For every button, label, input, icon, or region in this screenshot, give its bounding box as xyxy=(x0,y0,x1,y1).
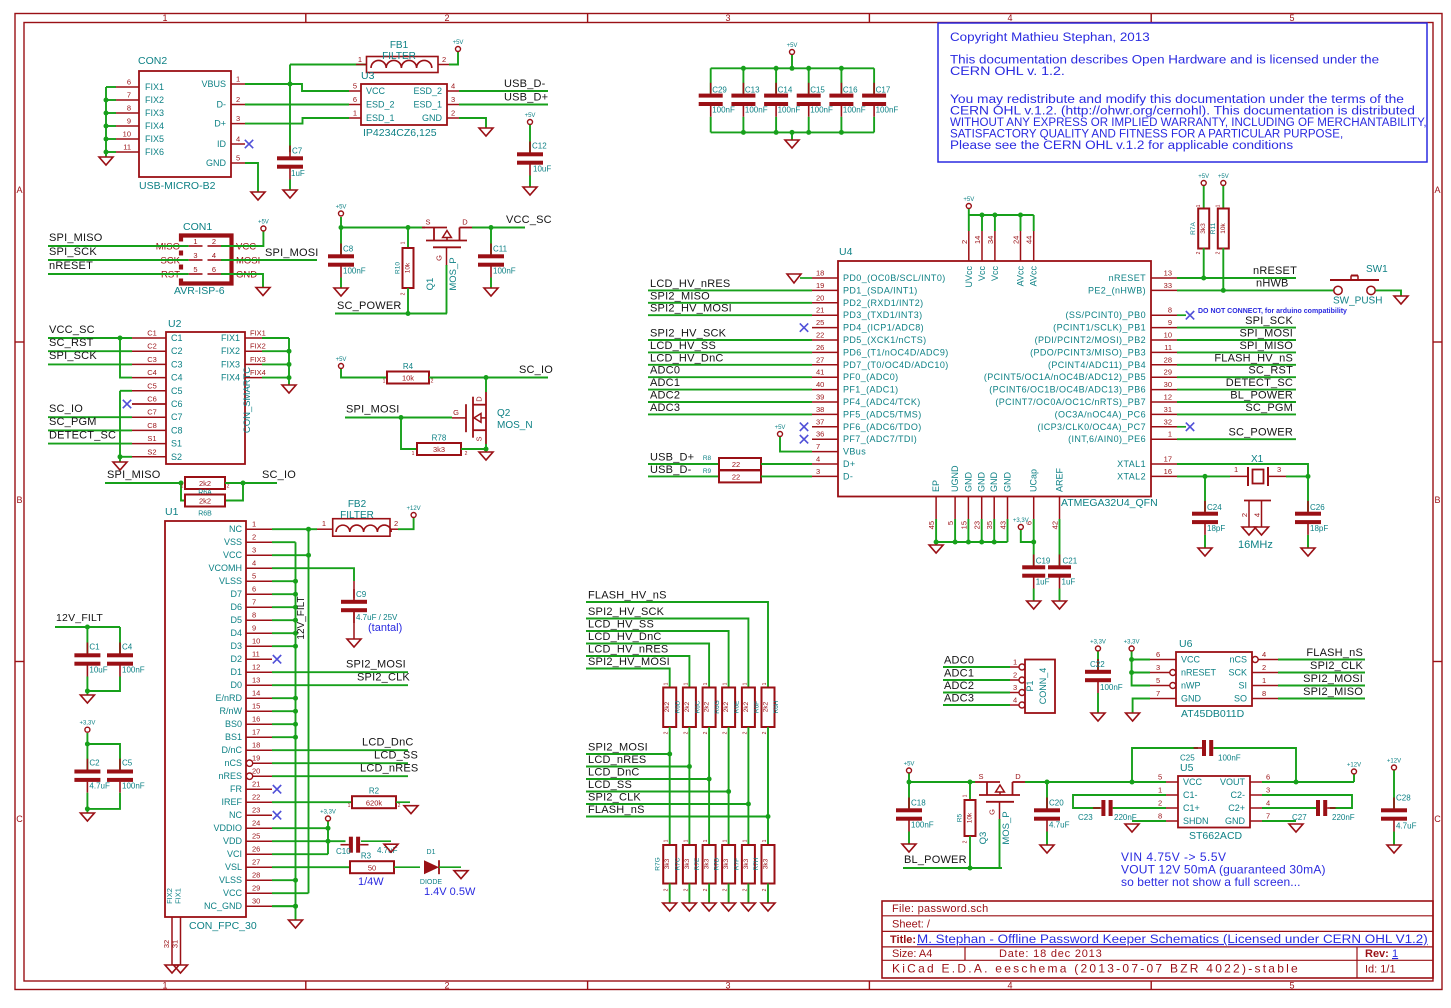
svg-text:3k3: 3k3 xyxy=(763,858,770,869)
svg-text:GND: GND xyxy=(1181,694,1202,704)
svg-text:IREF: IREF xyxy=(221,797,242,807)
svg-text:5: 5 xyxy=(1158,773,1162,782)
no-connect xyxy=(245,140,253,148)
svg-text:C25: C25 xyxy=(1180,754,1195,763)
wire U1 pin10 xyxy=(272,645,296,647)
wire divider column xyxy=(728,727,730,845)
svg-text:C2+: C2+ xyxy=(1228,803,1245,813)
svg-text:3: 3 xyxy=(193,251,197,260)
wire +12V to C28 xyxy=(1393,771,1395,809)
capacitor C10 xyxy=(336,837,398,856)
svg-text:LCD_HV_DnC: LCD_HV_DnC xyxy=(650,352,724,364)
power +3,3V at UCap xyxy=(1013,518,1029,530)
svg-text:C14: C14 xyxy=(778,85,793,94)
wire +5V to R11 xyxy=(1222,186,1224,209)
junction xyxy=(953,540,958,545)
svg-text:C4: C4 xyxy=(147,368,157,377)
svg-text:C26: C26 xyxy=(1310,503,1325,512)
svg-text:nCS: nCS xyxy=(1229,655,1247,665)
svg-text:5: 5 xyxy=(353,82,357,91)
power +3,3V at C2 xyxy=(79,721,95,733)
net label ADC3 at U4 xyxy=(650,402,680,414)
wire C2+ to C27 xyxy=(1262,807,1316,809)
svg-text:4: 4 xyxy=(816,455,820,464)
svg-text:6: 6 xyxy=(127,78,131,87)
wire SPI_SCK to CON1 xyxy=(48,259,189,261)
svg-text:10k: 10k xyxy=(1220,223,1227,234)
svg-text:VSS: VSS xyxy=(224,537,242,547)
wire U1 VDD to C10 xyxy=(272,840,346,842)
resistor R6G 2k2 xyxy=(703,688,722,728)
ground U3 xyxy=(479,128,493,136)
wire nHWB net xyxy=(1177,289,1334,291)
ground C28 xyxy=(1387,845,1401,853)
svg-text:FIX6: FIX6 xyxy=(145,147,164,157)
svg-text:BS1: BS1 xyxy=(225,732,242,742)
svg-text:37: 37 xyxy=(816,417,824,426)
junction xyxy=(741,130,746,135)
junction xyxy=(746,802,751,807)
svg-text:FLASH_nS: FLASH_nS xyxy=(588,804,645,816)
ground C20 xyxy=(1040,845,1054,853)
IC U4 ATMEGA32U4_QFN xyxy=(812,231,1177,529)
svg-text:UGND: UGND xyxy=(950,465,960,492)
ground C21 xyxy=(1053,601,1067,609)
svg-text:FB1: FB1 xyxy=(390,40,409,51)
resistor R10 xyxy=(395,248,414,288)
junction xyxy=(104,137,109,142)
svg-text:VCC: VCC xyxy=(236,242,256,253)
svg-text:5: 5 xyxy=(946,521,955,525)
ground D1 xyxy=(454,871,468,879)
junction xyxy=(839,66,844,71)
svg-text:10k: 10k xyxy=(402,374,414,383)
svg-text:D: D xyxy=(475,396,484,402)
svg-text:620k: 620k xyxy=(366,798,383,807)
wire LCD_DnC from U1 xyxy=(272,749,408,751)
wire SPI_MOSI from U4 xyxy=(1177,339,1296,341)
wire U1 pin29 xyxy=(272,892,309,894)
net label LCD_nRES at U1 xyxy=(360,763,418,775)
svg-text:2: 2 xyxy=(960,240,969,244)
net label LCD_DnC at divider xyxy=(588,767,640,779)
capacitor C16 xyxy=(829,83,865,117)
net label SPI_MOSI at Q2 xyxy=(346,404,400,416)
svg-text:R6E: R6E xyxy=(734,700,741,713)
svg-text:2k2: 2k2 xyxy=(664,701,671,712)
net label SPI2_MISO at U6 xyxy=(1303,686,1363,698)
svg-text:C7: C7 xyxy=(147,408,157,417)
wire xyxy=(106,112,116,114)
svg-text:12V_FILT: 12V_FILT xyxy=(56,612,103,624)
svg-text:ESD_1: ESD_1 xyxy=(413,100,442,110)
svg-text:ADC0: ADC0 xyxy=(650,365,680,377)
capacitor C22 xyxy=(1085,659,1123,693)
wire FB1 to +5V xyxy=(449,52,458,65)
net label LCD_SS at divider xyxy=(588,779,632,791)
svg-text:27: 27 xyxy=(252,858,260,867)
svg-text:S2: S2 xyxy=(171,452,182,462)
svg-text:3: 3 xyxy=(451,95,455,104)
IC U5 ST662ACD xyxy=(1158,762,1270,842)
svg-text:GND: GND xyxy=(236,270,257,281)
wire U1 VCI xyxy=(272,853,328,855)
net label SPI_SCK xyxy=(49,350,97,362)
wire R10 to SC_POWER xyxy=(407,288,409,314)
svg-text:SC_PGM: SC_PGM xyxy=(49,416,97,428)
wire LCD_nRES from U1 xyxy=(272,775,408,777)
svg-text:2: 2 xyxy=(442,55,446,64)
svg-text:24: 24 xyxy=(1012,236,1021,244)
svg-text:KiCad E.D.A. eeschema (2013-0: KiCad E.D.A. eeschema (2013-07-07 BZR 40… xyxy=(892,962,1300,976)
svg-text:G: G xyxy=(988,809,997,815)
svg-text:MOSI: MOSI xyxy=(236,256,260,267)
svg-text:2k2: 2k2 xyxy=(743,701,750,712)
svg-text:S2: S2 xyxy=(147,447,156,456)
power +5V at CON1 xyxy=(258,220,269,232)
svg-text:C4: C4 xyxy=(171,373,183,383)
svg-text:SC_RST: SC_RST xyxy=(1248,365,1293,377)
net label SPI_MISO at U4 right xyxy=(1239,340,1293,352)
junction VOUT xyxy=(1294,780,1299,785)
svg-text:6: 6 xyxy=(1266,773,1270,782)
svg-text:(PDO/PCINT3/MISO)_PB3: (PDO/PCINT3/MISO)_PB3 xyxy=(1030,347,1146,357)
svg-text:R6G: R6G xyxy=(714,700,721,713)
ground X1 pin2 xyxy=(1242,527,1256,535)
junction xyxy=(339,225,344,230)
wire to C1 xyxy=(86,627,88,653)
wire USB_D+ net xyxy=(459,104,548,106)
svg-text:C12: C12 xyxy=(532,142,547,151)
wire XTAL2 to X1 xyxy=(1177,475,1230,477)
power +5V at R11 xyxy=(1218,174,1229,186)
crystal X1 xyxy=(1230,454,1286,551)
svg-text:R7H: R7H xyxy=(753,857,760,870)
ground R7F xyxy=(741,903,755,911)
wire nRESET net xyxy=(1177,277,1296,279)
wire SPI2_CLK from U6 xyxy=(1278,672,1365,674)
svg-text:U5: U5 xyxy=(1180,762,1194,774)
ground SW1 xyxy=(1394,296,1408,304)
wire R7E to ground xyxy=(708,884,710,904)
wire UCap to C19 xyxy=(1033,519,1035,565)
resistor R2 xyxy=(352,787,396,809)
svg-text:1: 1 xyxy=(664,682,670,685)
wire SPI2_MOSI to divider xyxy=(586,753,670,755)
no-connect xyxy=(1186,311,1194,319)
svg-text:4: 4 xyxy=(451,82,455,91)
svg-text:2: 2 xyxy=(212,237,216,246)
svg-text:9: 9 xyxy=(252,624,256,633)
svg-text:(PCINT1/SCLK)_PB1: (PCINT1/SCLK)_PB1 xyxy=(1053,323,1146,333)
svg-text:3k3: 3k3 xyxy=(743,858,750,869)
svg-text:R6H: R6H xyxy=(773,700,780,713)
connector CON2 USB-MICRO-B2 xyxy=(116,55,245,192)
svg-text:9: 9 xyxy=(1168,318,1172,327)
ground cap bank xyxy=(785,140,799,148)
svg-text:R11: R11 xyxy=(1210,222,1217,234)
capacitor C2 xyxy=(74,759,110,793)
svg-text:2: 2 xyxy=(444,13,449,23)
svg-text:ESD_2: ESD_2 xyxy=(413,86,442,96)
svg-text:File: password.sch: File: password.sch xyxy=(892,903,989,915)
svg-text:D7: D7 xyxy=(230,589,242,599)
svg-text:33: 33 xyxy=(1164,281,1172,290)
svg-text:D5: D5 xyxy=(230,615,242,625)
net label SPI2_MOSI at U1 xyxy=(346,659,406,671)
IC U3 IP4234CZ6,125 xyxy=(349,70,459,139)
wire divider column xyxy=(708,727,710,845)
svg-text:19: 19 xyxy=(252,754,260,763)
svg-text:UVcc: UVcc xyxy=(964,266,974,288)
wire U1 pin1 to FB2 xyxy=(272,528,317,530)
svg-text:D-: D- xyxy=(843,471,853,481)
ground C18 xyxy=(902,844,916,852)
svg-text:34: 34 xyxy=(986,236,995,244)
svg-text:20: 20 xyxy=(816,293,824,302)
wire FLASH_nS from U6 xyxy=(1278,659,1365,661)
svg-text:16: 16 xyxy=(252,715,260,724)
svg-text:XTAL1: XTAL1 xyxy=(1117,459,1146,469)
wire +5V to rail xyxy=(791,55,793,68)
wire U5 GND xyxy=(1262,820,1296,822)
svg-text:BL_POWER: BL_POWER xyxy=(1230,390,1293,402)
svg-text:MOS_P: MOS_P xyxy=(448,257,459,290)
svg-text:R4: R4 xyxy=(403,362,414,371)
svg-text:SPI2_HV_MOSI: SPI2_HV_MOSI xyxy=(588,656,670,668)
wire U2 FIX bus xyxy=(288,338,290,385)
svg-text:NC: NC xyxy=(229,524,242,534)
svg-text:R6F: R6F xyxy=(753,701,760,713)
svg-text:C2: C2 xyxy=(147,342,157,351)
ground R7C xyxy=(682,903,696,911)
wire xyxy=(106,138,116,140)
svg-text:FIX4: FIX4 xyxy=(250,368,266,377)
wire Q3 to U5 VCC xyxy=(1025,781,1166,783)
svg-text:G: G xyxy=(453,408,459,417)
power +3,3V at U1 xyxy=(320,810,336,822)
wire C23 to C1+ xyxy=(1113,807,1166,809)
wire U2 C5 xyxy=(120,390,132,392)
wire SPI2_MOSI from U6 xyxy=(1278,685,1365,687)
wire GND pin down xyxy=(967,519,969,542)
junction R6B right xyxy=(241,481,246,486)
wire ADC1 to P1 xyxy=(943,679,1010,681)
svg-text:SPI2_MOSI: SPI2_MOSI xyxy=(588,742,648,754)
svg-text:Vcc: Vcc xyxy=(977,266,987,282)
note tantal xyxy=(368,622,402,634)
transistor Q2 MOS_N xyxy=(452,392,533,444)
net label 12V_FILT vertical xyxy=(296,596,307,639)
svg-text:50: 50 xyxy=(368,863,376,872)
copyright text block xyxy=(938,23,1427,162)
svg-text:Rev:: Rev: xyxy=(1365,948,1389,960)
wire U1 pin3 xyxy=(272,554,309,556)
wire C26 to ground xyxy=(1307,535,1309,548)
svg-text:C6: C6 xyxy=(147,395,157,404)
svg-text:8: 8 xyxy=(1158,812,1162,821)
wire USB_D- to R9 xyxy=(648,475,719,477)
svg-text:+3,3V: +3,3V xyxy=(79,721,95,727)
resistor R4 xyxy=(387,362,429,384)
junction VDDIO xyxy=(326,826,331,831)
svg-text:20: 20 xyxy=(252,767,260,776)
resistor R6F 2k2 xyxy=(742,688,761,728)
wire SPI_MISO to R6A xyxy=(105,482,181,484)
no-connect xyxy=(273,811,281,819)
svg-text:C2: C2 xyxy=(89,759,100,768)
svg-text:(PCINT5/OC1A/nOC4B/ADC12)_PB5: (PCINT5/OC1A/nOC4B/ADC12)_PB5 xyxy=(984,372,1146,382)
wire divider column xyxy=(688,727,690,845)
wire U1 pin30 xyxy=(272,905,296,907)
wire SPI_SCK from U4 xyxy=(1177,327,1296,329)
svg-text:FIX2: FIX2 xyxy=(250,342,266,351)
svg-text:MOS_P: MOS_P xyxy=(1001,811,1012,844)
resistor R7F 3k3 xyxy=(733,845,755,884)
title block xyxy=(882,901,1433,978)
connector CON1 AVR-ISP-6 xyxy=(156,221,261,297)
svg-text:CONN_4: CONN_4 xyxy=(1038,668,1048,705)
ground U1 FIX2 xyxy=(165,965,179,973)
svg-text:Q2: Q2 xyxy=(497,408,511,419)
svg-text:D3: D3 xyxy=(230,641,242,651)
svg-text:C24: C24 xyxy=(1207,503,1222,512)
svg-text:45: 45 xyxy=(927,521,936,529)
wire R7G to ground xyxy=(669,884,671,904)
svg-text:1: 1 xyxy=(358,55,362,64)
net label nRESET xyxy=(49,260,93,272)
wire U3 GND xyxy=(459,118,486,128)
net label FLASH_HV_nS at divider xyxy=(588,590,667,602)
net label SPI2_MOSI at divider xyxy=(588,742,648,754)
power +5V cap bank xyxy=(787,43,798,55)
junction xyxy=(287,375,292,380)
junction C1 C4 xyxy=(85,689,90,694)
wire C20 to ground xyxy=(1046,832,1048,846)
wire +3,3V to C22 xyxy=(1097,652,1099,670)
wire DETECT_SC xyxy=(48,443,132,445)
wire U1 pin5 xyxy=(272,580,296,582)
svg-text:S: S xyxy=(978,772,983,781)
resistor xyxy=(350,861,394,873)
power +5V xyxy=(453,40,464,52)
svg-text:6: 6 xyxy=(1156,650,1160,659)
svg-text:18pF: 18pF xyxy=(1207,524,1225,533)
junction xyxy=(774,130,779,135)
capacitor C19 xyxy=(1022,555,1051,589)
wire SPI_MOSI from CON1 xyxy=(221,259,317,261)
svg-text:VCC: VCC xyxy=(223,550,243,560)
svg-text:+12V: +12V xyxy=(407,506,421,512)
svg-text:D2: D2 xyxy=(230,654,242,664)
svg-text:2: 2 xyxy=(236,95,240,104)
net label SPI_SCK at U4 right xyxy=(1245,315,1293,327)
svg-text:3k3: 3k3 xyxy=(684,858,691,869)
net label ADC0 at U4 xyxy=(650,365,680,377)
capacitor C25 xyxy=(1180,740,1241,763)
svg-text:ADC3: ADC3 xyxy=(650,402,680,414)
resistor R6H 2k2 xyxy=(762,688,781,728)
wire SPI2_MOSI from U1 xyxy=(272,671,408,673)
wire xyxy=(106,86,116,88)
svg-text:Q3: Q3 xyxy=(978,832,989,845)
svg-text:FIX5: FIX5 xyxy=(145,134,164,144)
resistor R6C 2k2 xyxy=(683,688,702,728)
svg-text:FIX4: FIX4 xyxy=(145,121,164,131)
svg-text:44: 44 xyxy=(1025,236,1034,244)
svg-text:C3: C3 xyxy=(147,355,157,364)
wire ADC3 to U4 xyxy=(648,413,812,415)
wire SPI2_CLK from U1 xyxy=(272,684,408,686)
svg-text:3k3: 3k3 xyxy=(1200,223,1207,234)
wire U4 pin2 xyxy=(968,215,970,231)
ground X1 pin4 xyxy=(1255,527,1269,535)
wire SPI2_HV_SCK to divider xyxy=(586,619,748,688)
capacitor C13 xyxy=(731,83,767,117)
capacitor C15 xyxy=(797,83,833,117)
net label SPI2_HV_MOSI at divider xyxy=(588,656,670,668)
svg-text:PF7_(ADC7/TDI): PF7_(ADC7/TDI) xyxy=(843,434,917,444)
svg-text:nHWB: nHWB xyxy=(1256,278,1289,290)
no-connect xyxy=(273,655,281,663)
junction xyxy=(707,777,712,782)
net label ADC3 at P1 xyxy=(944,693,974,705)
wire U1 pin6 xyxy=(272,593,296,595)
capacitor C28 xyxy=(1381,794,1417,832)
svg-text:R6C: R6C xyxy=(694,700,701,713)
resistor R7E 3k3 xyxy=(694,845,716,884)
svg-text:18pF: 18pF xyxy=(1310,524,1328,533)
wire SC_RST xyxy=(48,350,132,352)
svg-text:2: 2 xyxy=(465,451,468,457)
wire SC_IO to U2 C7 xyxy=(48,416,132,418)
wire ADC2 to U4 xyxy=(648,401,812,403)
svg-text:nRESET: nRESET xyxy=(1181,668,1217,678)
svg-text:PF0_(ADC0): PF0_(ADC0) xyxy=(843,372,899,382)
svg-text:3: 3 xyxy=(1013,683,1017,692)
wire C2- to C27 xyxy=(1262,795,1352,808)
capacitor C9 xyxy=(341,589,398,623)
svg-text:RST: RST xyxy=(161,270,180,281)
wire X1 pin3 xyxy=(1286,475,1308,477)
wire C5 bottom xyxy=(87,793,120,809)
svg-text:3k3: 3k3 xyxy=(704,858,711,869)
wire C17 top xyxy=(873,68,875,93)
svg-text:AVR-ISP-6: AVR-ISP-6 xyxy=(174,285,225,297)
svg-text:D+: D+ xyxy=(843,459,856,469)
wire R7H to ground xyxy=(767,884,769,904)
svg-text:U1: U1 xyxy=(165,506,179,518)
ground U4 xyxy=(929,545,943,553)
capacitor C17 xyxy=(862,83,898,117)
wire SPI2_CLK to divider xyxy=(586,803,748,805)
svg-text:Title:: Title: xyxy=(890,934,916,946)
wire ADC2 to P1 xyxy=(943,692,1010,694)
wire CON1 VCC to +5V xyxy=(221,232,263,247)
wire USB_D+ to R8 xyxy=(648,463,719,465)
wire VBUS xyxy=(245,83,290,85)
svg-text:35: 35 xyxy=(985,521,994,529)
svg-text:2: 2 xyxy=(1158,799,1162,808)
transistor Q3 MOS_P xyxy=(975,772,1025,845)
wire cap bank bottom rail xyxy=(711,131,874,133)
net label LCD_SS at U1 xyxy=(374,750,418,762)
svg-text:1: 1 xyxy=(1158,786,1162,795)
svg-text:SC_POWER: SC_POWER xyxy=(1228,427,1293,439)
svg-text:1: 1 xyxy=(723,839,729,842)
svg-text:LCD_HV_SS: LCD_HV_SS xyxy=(650,340,716,352)
wire C15 bottom xyxy=(808,117,810,133)
